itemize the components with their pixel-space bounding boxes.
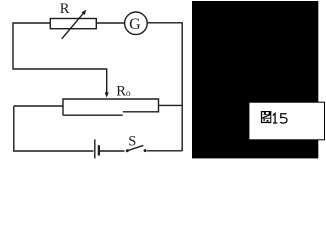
svg-text:S: S: [128, 134, 136, 150]
svg-text:G: G: [129, 16, 141, 33]
svg-text:R: R: [60, 1, 70, 17]
